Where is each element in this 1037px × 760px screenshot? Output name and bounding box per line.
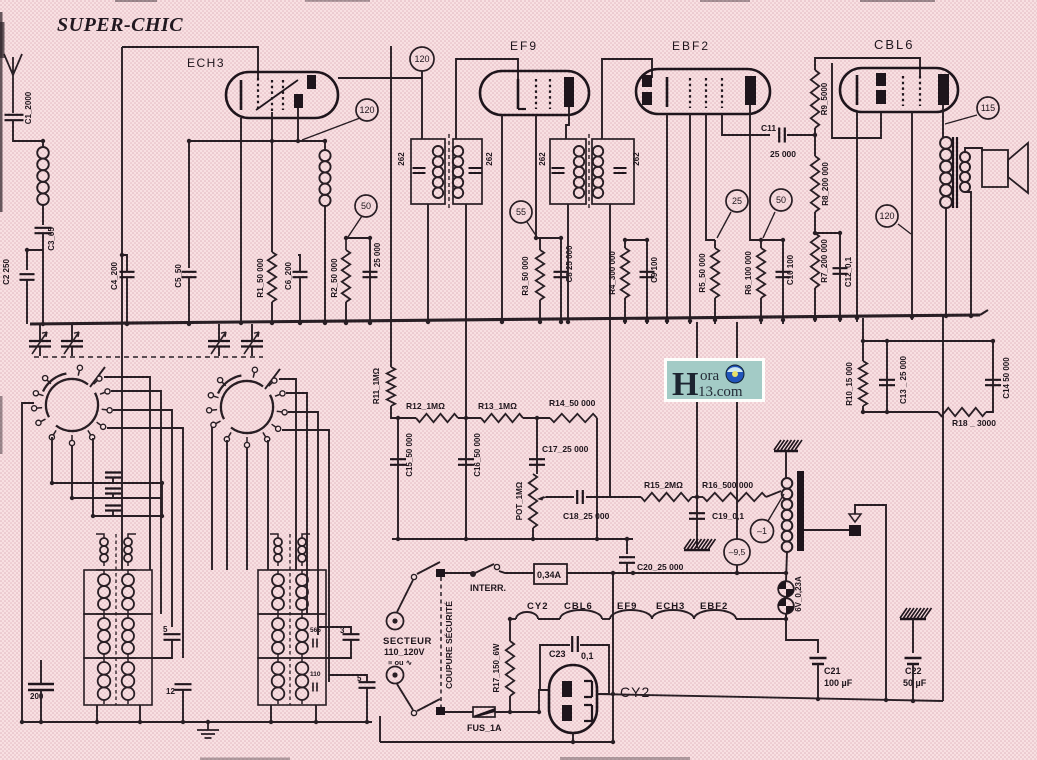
wire screen node — [346, 237, 370, 239]
capacitor padder2 — [105, 489, 121, 494]
wire — [546, 496, 574, 498]
svg-text:C13 _ 25 000: C13 _ 25 000 — [899, 355, 908, 404]
svg-text:R4_300 000: R4_300 000 — [608, 251, 617, 295]
svg-text:CY2: CY2 — [620, 684, 650, 700]
trimmer pointer 115 — [945, 115, 977, 124]
wire — [458, 417, 481, 419]
ground symbol — [197, 722, 219, 738]
wire — [421, 71, 423, 139]
svg-text:R15_2MΩ: R15_2MΩ — [644, 480, 683, 490]
label ou — [388, 658, 413, 667]
svg-text:25: 25 — [732, 196, 742, 206]
wire — [39, 324, 41, 356]
svg-text:R2_50 000: R2_50 000 — [330, 258, 339, 298]
mains terminal top — [387, 613, 404, 630]
core bar — [797, 471, 804, 551]
wire — [329, 675, 367, 722]
capacitor C14 — [985, 380, 1001, 385]
ground field coil — [774, 440, 802, 451]
wire — [817, 664, 819, 699]
wire — [945, 208, 947, 315]
tube CBL6 grid2 — [902, 76, 904, 106]
svg-text:ECH3: ECH3 — [187, 56, 225, 70]
wire — [532, 528, 534, 539]
wire — [271, 302, 273, 324]
IF2 core dashed — [588, 134, 590, 209]
dashed core g2 — [289, 534, 291, 705]
wire — [786, 552, 787, 581]
junction — [611, 537, 739, 744]
tube ECH3 triode grid — [256, 80, 298, 110]
wire cathode EBF2 — [666, 114, 668, 324]
capacitor C22 — [905, 658, 922, 664]
label C13 — [899, 355, 908, 404]
wire cathode CBL6 — [856, 112, 858, 322]
svg-text:C20_25 000: C20_25 000 — [637, 562, 684, 572]
label R7 — [820, 239, 829, 283]
svg-text:C17_25 000: C17_25 000 — [542, 444, 589, 454]
capacitor padder3 — [105, 506, 121, 511]
svg-text:50: 50 — [361, 201, 371, 211]
inductor C3 coil — [37, 147, 49, 205]
trimmer pointer 50 — [348, 216, 362, 237]
svg-text:262: 262 — [485, 152, 494, 166]
wire htbus2 — [597, 538, 633, 540]
wire — [782, 240, 784, 324]
label 262 d — [632, 152, 641, 166]
capacitor C11 — [779, 128, 785, 143]
resistor R9 — [811, 70, 819, 128]
label 5a — [163, 625, 168, 634]
trimmer circle 115 — [977, 97, 999, 119]
lamp 1 — [778, 581, 794, 597]
label ECH3h — [656, 601, 685, 612]
tube EBF2 diode anodes — [642, 75, 652, 105]
cap 110 — [313, 683, 317, 692]
resistor R4 — [621, 248, 629, 298]
label R3 — [521, 256, 530, 296]
coil box5 — [258, 614, 326, 658]
svg-text:C4_200: C4_200 — [110, 261, 119, 290]
wire avc row — [398, 417, 416, 419]
coil box6 — [258, 658, 326, 705]
label POT — [515, 481, 524, 520]
wire cathode — [240, 118, 242, 324]
wire padder rail2 — [72, 497, 162, 499]
tube CY2 cath2 — [584, 705, 592, 721]
antenna — [4, 54, 22, 113]
capacitor C10 — [776, 272, 791, 277]
label R1 — [256, 258, 265, 298]
switch lever b — [417, 699, 440, 711]
svg-text:C5_50: C5_50 — [174, 264, 183, 288]
wire — [539, 690, 549, 712]
wire — [787, 134, 815, 136]
trimmer CV1 — [29, 332, 51, 354]
wire ht line — [567, 572, 786, 574]
label R10 — [845, 362, 854, 406]
wire screen CBL6 — [911, 112, 913, 320]
label SECTEUR — [383, 636, 432, 647]
wire — [112, 477, 114, 516]
wire osc coil top — [324, 141, 326, 150]
wire — [626, 539, 628, 573]
trimmer circle 55 — [510, 201, 532, 223]
resistor R7 — [811, 233, 819, 288]
svg-text:110_120V: 110_120V — [384, 647, 425, 657]
wire — [863, 340, 993, 342]
tube EF9 grid cap — [518, 79, 526, 109]
wire — [182, 690, 184, 722]
wire — [714, 240, 716, 324]
wire — [22, 403, 34, 722]
band switch S2 — [207, 367, 288, 447]
label R15 — [644, 480, 683, 490]
wire anode2 — [297, 108, 299, 141]
wire — [152, 640, 172, 658]
wire — [42, 233, 44, 324]
wire — [499, 571, 534, 573]
wire anode CBL6 — [942, 105, 944, 137]
inductor IF2 primary — [574, 146, 584, 198]
wire — [126, 277, 128, 324]
wire screen EBF2 — [706, 114, 715, 240]
wire — [567, 204, 569, 324]
wire — [218, 324, 220, 356]
label R5 — [698, 253, 707, 293]
svg-text:CBL6: CBL6 — [564, 601, 593, 612]
tube ECH3 anode hexode — [307, 75, 316, 89]
capacitor C1 — [5, 115, 24, 120]
inductor L3c — [270, 614, 284, 658]
wire — [318, 627, 351, 658]
inductor L1d — [96, 658, 110, 704]
wire — [113, 410, 172, 627]
capacitor IF1b — [469, 168, 482, 173]
wire — [786, 613, 818, 653]
inductor IF1 secondary — [453, 146, 463, 198]
lamp 2 — [778, 598, 794, 614]
junction — [508, 710, 512, 714]
inductor L1a — [96, 534, 108, 566]
wire stage divider — [390, 46, 392, 367]
svg-text:ECH3: ECH3 — [656, 601, 685, 612]
label R9 — [820, 82, 829, 115]
wire — [271, 705, 316, 722]
svg-text:50: 50 — [776, 195, 786, 205]
wire — [445, 572, 471, 574]
bias circle -9,5 — [724, 539, 750, 565]
wire — [111, 391, 161, 614]
switch interr contact — [494, 564, 499, 569]
wire — [226, 440, 228, 570]
wire — [495, 711, 539, 713]
coil box3 — [84, 658, 152, 705]
wire — [766, 491, 781, 497]
wire anode EF9 — [566, 107, 569, 139]
wire det to avc — [696, 322, 698, 497]
label C4 — [110, 261, 119, 290]
wire grid return bus — [392, 538, 633, 540]
capacitor C12 — [833, 268, 848, 274]
capacitor C15 — [390, 459, 406, 465]
capacitor C5 — [182, 272, 197, 277]
inductor L4c — [296, 614, 310, 658]
wire — [912, 664, 914, 701]
wire — [539, 238, 541, 250]
wire — [696, 497, 698, 548]
switch pole b — [436, 707, 445, 715]
tube ECH3 anode triode — [294, 94, 303, 108]
wire — [122, 255, 127, 272]
trimmer pointer 50b — [763, 212, 775, 238]
wire cathode EF9 — [501, 115, 503, 324]
label C6 — [284, 261, 293, 290]
resistor R5 — [711, 248, 719, 298]
svg-text:H: H — [672, 366, 698, 403]
resistor R1 — [268, 252, 276, 302]
speaker cone — [1008, 143, 1028, 193]
wire — [862, 318, 864, 341]
label COUPURE — [444, 601, 454, 689]
band switch S1 — [32, 365, 113, 445]
svg-text:C14 50 000: C14 50 000 — [1002, 357, 1011, 399]
label C20 — [637, 562, 684, 572]
tube EBF2 anode — [745, 76, 756, 105]
ground C22 — [900, 608, 932, 619]
wire — [97, 705, 140, 722]
wire — [465, 418, 467, 539]
label 110 — [310, 671, 321, 678]
wire heater bottom — [572, 733, 574, 742]
label C15 — [405, 433, 414, 477]
svg-text:R5_50 000: R5_50 000 — [698, 253, 707, 293]
inductor L2c — [122, 614, 136, 658]
wire — [251, 324, 253, 356]
label 0,34A — [537, 570, 562, 580]
svg-text:120: 120 — [879, 211, 894, 221]
wire bias — [736, 322, 738, 539]
label 262 c — [538, 152, 547, 166]
switch pole — [436, 569, 445, 577]
svg-text:120: 120 — [414, 54, 429, 64]
trimmer CV3 — [208, 332, 230, 354]
wire mains bottom — [380, 741, 613, 743]
wire — [539, 300, 541, 324]
svg-text:R1_50 000: R1_50 000 — [256, 258, 265, 298]
wire — [42, 205, 44, 225]
svg-text:565: 565 — [310, 627, 321, 634]
trimmer pointer 120 — [302, 118, 360, 140]
svg-text:≡ ou ∿: ≡ ou ∿ — [388, 658, 413, 667]
wire C5 branch — [188, 141, 190, 268]
bus junction dots — [41, 314, 973, 326]
wire — [912, 619, 914, 653]
trimmer circle 50 — [355, 195, 377, 217]
capacitor C8 — [554, 272, 569, 277]
svg-text:R12_1MΩ: R12_1MΩ — [406, 401, 445, 411]
capacitor 12 — [175, 684, 192, 690]
label CY2h — [527, 601, 548, 612]
inductor oscillator coil — [319, 150, 330, 206]
resistor R2 — [342, 250, 350, 302]
wire — [71, 446, 73, 498]
label C12 — [844, 256, 853, 287]
wire — [536, 418, 538, 474]
wire — [510, 618, 516, 620]
inductor output primary — [940, 137, 952, 208]
inductor L4a — [298, 534, 310, 566]
svg-text:C6_200: C6_200 — [284, 261, 293, 290]
trimmer CV2 — [61, 332, 83, 354]
label EBF2 — [672, 39, 710, 53]
svg-text:262: 262 — [632, 152, 641, 166]
resistor R11 — [387, 367, 395, 406]
svg-text:R18 _ 3000: R18 _ 3000 — [952, 418, 996, 428]
label R18 — [952, 418, 996, 428]
capacitor 3 — [343, 634, 360, 640]
label C22 — [903, 666, 927, 688]
svg-text:R9_5000: R9_5000 — [820, 82, 829, 115]
trimmer circle 120 — [356, 99, 378, 121]
tube CBL6 cathode — [856, 75, 859, 105]
label C17 — [542, 444, 589, 454]
wire — [13, 121, 43, 148]
label 25000b — [770, 149, 796, 159]
svg-text:5: 5 — [163, 625, 168, 634]
svg-text:C8 25 000: C8 25 000 — [565, 245, 574, 282]
label C23 — [549, 649, 594, 661]
resistor R13 — [481, 414, 523, 422]
svg-text:C2 250: C2 250 — [2, 259, 11, 285]
jack arrow — [849, 514, 861, 522]
jack plug — [849, 525, 861, 536]
wire — [286, 393, 307, 614]
wire screen node EF9 — [536, 237, 559, 239]
svg-text:100 µF: 100 µF — [824, 678, 853, 688]
tube ECH3 grid1 — [257, 78, 259, 112]
wire — [51, 437, 53, 483]
inductor IF1 primary — [433, 146, 443, 198]
label R2 — [330, 258, 339, 298]
wire — [246, 448, 248, 570]
label C19 — [712, 511, 744, 521]
label CBL6h — [564, 601, 593, 612]
trimmer circle 120b — [410, 47, 434, 71]
svg-text:C11: C11 — [761, 123, 776, 133]
svg-text:262: 262 — [397, 152, 406, 166]
wire — [397, 684, 413, 710]
wire — [279, 379, 296, 570]
inductor L2d — [122, 658, 136, 704]
tube ECH3 grid2 — [271, 80, 273, 112]
wire grid box — [122, 47, 258, 78]
wire — [104, 377, 150, 570]
label 110-120V — [384, 647, 425, 657]
label FUS_1A — [467, 723, 502, 733]
capacitor C13 — [879, 380, 895, 385]
wire — [397, 418, 399, 539]
wire — [965, 192, 971, 314]
svg-text:25 000: 25 000 — [770, 149, 796, 159]
wire — [839, 233, 841, 322]
capacitor 200 — [28, 684, 54, 690]
svg-text:C16_50 000: C16_50 000 — [473, 433, 482, 477]
tube EF9 grid2 — [535, 79, 537, 109]
tube CY2 anode2 — [562, 705, 572, 721]
dashed core g1 — [115, 534, 117, 705]
fuse FUS 1A — [473, 707, 495, 717]
wire — [814, 212, 816, 233]
heater chain — [516, 610, 786, 619]
wire — [760, 240, 762, 324]
wire — [814, 288, 816, 322]
wire — [27, 250, 43, 270]
label 262 a — [397, 152, 406, 166]
svg-text:R3_50 000: R3_50 000 — [521, 256, 530, 296]
tube ECH3 envelope — [226, 72, 338, 118]
wire — [646, 240, 648, 324]
resistor R16 — [703, 493, 766, 501]
capacitor C18 — [577, 490, 583, 504]
tube EBF2 cathode — [666, 77, 669, 107]
inductor L4d — [296, 658, 310, 704]
wire grid EF9 — [456, 59, 518, 139]
wire — [986, 341, 993, 412]
transformer core — [953, 137, 957, 208]
wire y141 — [189, 140, 325, 142]
wire — [288, 412, 318, 635]
bus end tick — [980, 310, 988, 315]
wire — [188, 277, 190, 324]
wire AVC to grid — [465, 204, 467, 418]
dashed gang link — [34, 356, 263, 358]
label 3 — [340, 626, 345, 635]
svg-text:FUS_1A: FUS_1A — [467, 723, 502, 733]
wire ht vertical — [612, 573, 614, 742]
IF1 secondary box — [453, 139, 482, 204]
label C9 — [650, 257, 659, 283]
inductor L3b — [270, 570, 284, 614]
capacitor C9 — [640, 272, 655, 277]
label C11 — [761, 123, 776, 133]
svg-text:R8_200 000: R8_200 000 — [821, 162, 830, 206]
tube CBL6 grid rects — [876, 73, 886, 104]
svg-text:CY2: CY2 — [527, 601, 548, 612]
label R6 — [744, 251, 753, 295]
coil box2 — [84, 614, 152, 658]
svg-text:ora: ora — [700, 368, 719, 384]
svg-text:POT_1MΩ: POT_1MΩ — [515, 481, 524, 520]
label C10 — [786, 254, 795, 285]
inductor output secondary — [960, 152, 970, 192]
resistor R17 — [506, 641, 514, 696]
wire ground rail — [22, 721, 372, 723]
wire — [586, 496, 641, 498]
watermark box — [664, 358, 765, 403]
tube CBL6 envelope — [840, 68, 958, 112]
wire — [863, 411, 938, 413]
svg-text:R6_100 000: R6_100 000 — [744, 251, 753, 295]
svg-text:SUPER-CHIC: SUPER-CHIC — [57, 14, 183, 36]
wire — [624, 240, 626, 324]
label R14 — [549, 398, 596, 408]
label C3 — [47, 227, 56, 251]
wire grid ret EBF2 — [689, 114, 691, 324]
capacitor C6 — [293, 272, 308, 277]
bias circle -1 — [751, 520, 774, 543]
wire — [886, 341, 888, 412]
